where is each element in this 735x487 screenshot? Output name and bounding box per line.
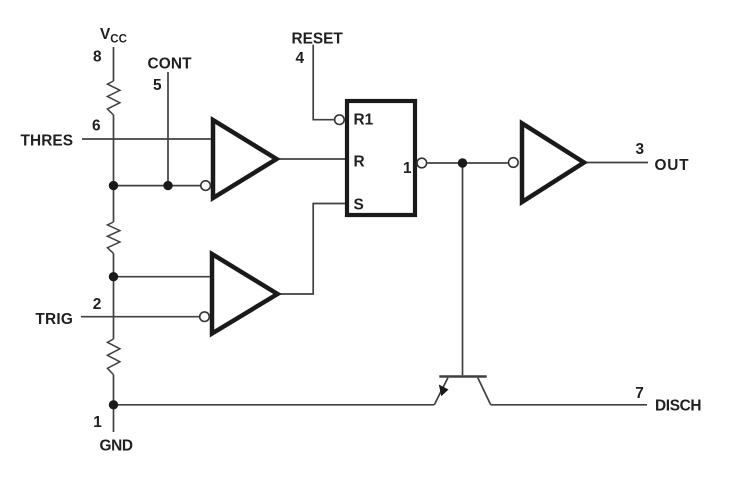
svg-text:8: 8	[93, 48, 102, 65]
svg-text:6: 6	[92, 118, 101, 135]
wire: ground rail to transistor emitter	[114, 404, 435, 406]
wire: trigger node to comparator non-inverting input	[114, 276, 210, 278]
wire: threshold node to comparator inverting input	[114, 185, 202, 187]
svg-text:1: 1	[403, 160, 412, 177]
svg-text:THRES: THRES	[21, 133, 74, 150]
svg-text:3: 3	[636, 141, 645, 158]
wire: trigger comparator output to latch S input	[278, 204, 348, 295]
wire: THRES line (pin 6)	[82, 138, 211, 140]
svg-text:S: S	[354, 196, 364, 213]
wire: divider upper segment	[113, 115, 115, 186]
svg-text:1: 1	[93, 414, 102, 431]
transistor (discharge)	[434, 377, 490, 405]
comparator U2 (trigger)	[200, 254, 278, 334]
latch U3 (R1 / R / S flip-flop)	[335, 101, 427, 215]
svg-text:R1: R1	[354, 111, 374, 128]
wire: RESET stub (pin 4)	[313, 45, 334, 120]
svg-text:TRIG: TRIG	[35, 311, 73, 328]
wire	[113, 253, 115, 276]
svg-text:2: 2	[93, 296, 102, 313]
svg-text:RESET: RESET	[292, 30, 344, 47]
resistor (bottom, trigger node to ground)	[107, 339, 120, 375]
junction: trigger node	[109, 272, 118, 281]
svg-text:GND: GND	[100, 438, 134, 455]
svg-text:DISCH: DISCH	[655, 397, 702, 414]
resistor (middle, threshold node to trigger node)	[107, 222, 120, 253]
junction: control node	[163, 181, 172, 190]
wire: CONT stub (pin 5)	[167, 72, 169, 186]
wire: OUT line (pin 3)	[585, 162, 648, 164]
svg-text:R: R	[354, 154, 365, 171]
wire: GND stub (pin 1)	[113, 405, 115, 432]
wire: VCC stub (pin 8)	[113, 47, 115, 81]
junction: threshold node	[109, 181, 118, 190]
svg-text:5: 5	[153, 77, 162, 94]
wire: divider middle segment	[113, 186, 115, 222]
wire: threshold comparator output to latch R input	[277, 158, 348, 160]
wire: output node to transistor base	[462, 163, 464, 375]
resistor (top, VCC to threshold node)	[107, 81, 120, 115]
svg-text:CONT: CONT	[148, 55, 193, 72]
junction: ground node	[109, 400, 118, 409]
svg-text:7: 7	[635, 385, 644, 402]
wire	[113, 375, 115, 405]
comparator U1 (threshold)	[201, 120, 277, 198]
output buffer	[509, 123, 585, 202]
wire: TRIG line (pin 2)	[81, 316, 200, 318]
junction: output node	[458, 158, 467, 167]
svg-text:4: 4	[296, 50, 305, 67]
svg-text:OUT: OUT	[655, 157, 690, 174]
wire: latch output to buffer	[427, 162, 507, 164]
wire: DISCH line (pin 7)	[491, 404, 647, 406]
wire: divider lower segment	[113, 277, 115, 339]
